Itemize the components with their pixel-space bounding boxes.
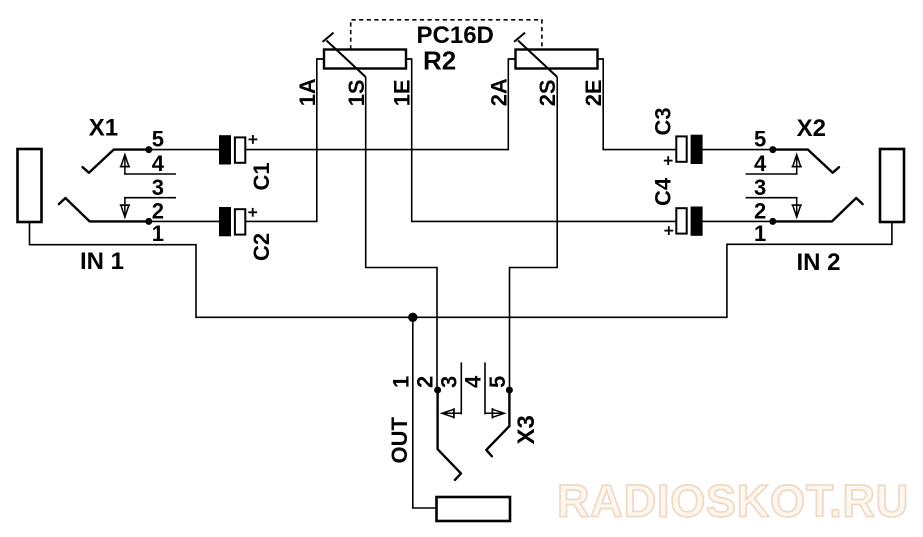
jack X2 contact pin5 (773, 150, 839, 173)
jack X3 pin4 stub (484, 362, 486, 414)
svg-text:2S: 2S (535, 79, 560, 106)
svg-text:4: 4 (152, 151, 165, 176)
node X1 pin5 dot (145, 146, 152, 153)
wire C1 to pot 2A (245, 59, 515, 150)
capacitor C4 negative plate (691, 207, 703, 236)
node X3 pin5 dot (506, 387, 513, 394)
jack X1 contact pin2 (59, 198, 149, 221)
wire ground to X3 pin1 (413, 317, 437, 508)
wire X1 pin2 to C2 (149, 220, 219, 222)
svg-text:2: 2 (152, 199, 164, 224)
jack X1 body (18, 149, 42, 222)
jack X3 (387, 362, 540, 521)
potentiometer R2 section 1 wiper (323, 33, 366, 77)
capacitor C2 positive plate (235, 209, 245, 234)
potentiometer R2 section 2 terminal stubs (508, 58, 603, 60)
wire dashed gang link (351, 20, 542, 50)
svg-text:X1: X1 (89, 115, 118, 142)
jack X1 contact pin5 (83, 150, 149, 173)
jack X3 pin3 stub (460, 362, 462, 414)
wire wiper 2S to X3 pin5 (510, 77, 558, 390)
wire X1 pin5 to C1 (149, 149, 219, 151)
wire ground bus X1 to X2 (30, 222, 892, 317)
potentiometer R2 section 2 body (516, 50, 598, 69)
jack X2 pin4 stub (746, 173, 798, 175)
node X1 pin2 dot (145, 218, 152, 225)
svg-text:5: 5 (754, 127, 766, 152)
jack X2 pin4 arrow (792, 155, 802, 174)
capacitor C4 polarity plus (664, 226, 673, 235)
potentiometer R2 section 2 wiper (514, 33, 557, 77)
wire pot 1E to C4 (406, 59, 676, 221)
jack X1 pin4 arrow (120, 155, 130, 174)
wire wiper 1S to X3 pin2 (366, 77, 437, 390)
svg-text:RADIOSKOT.RU: RADIOSKOT.RU (557, 476, 909, 527)
svg-text:5: 5 (485, 376, 510, 388)
capacitor C1 negative plate (219, 135, 231, 164)
jack X3 body (437, 497, 511, 521)
svg-text:C4: C4 (651, 177, 676, 206)
svg-text:X3: X3 (513, 415, 540, 444)
potentiometer R2 section 1 terminal stubs (317, 58, 412, 60)
svg-text:1E: 1E (390, 79, 415, 106)
jack X1 pin3 stub (124, 197, 176, 199)
jack X1 pin3 arrow (120, 198, 130, 217)
svg-text:C3: C3 (651, 107, 676, 135)
svg-text:1: 1 (754, 221, 766, 246)
wire C3 to X2 pin5 (703, 149, 773, 151)
capacitor C1 positive plate (235, 137, 245, 162)
capacitor C2 (219, 207, 274, 261)
jack X3 contact pin2 (438, 390, 461, 480)
capacitor C4 positive plate (676, 208, 686, 233)
wire pot 2E to C3 (598, 59, 677, 150)
capacitor C3 (651, 107, 703, 165)
svg-text:1: 1 (389, 376, 414, 388)
svg-text:3: 3 (754, 175, 766, 200)
jack X3 contact pin5 (486, 390, 509, 456)
svg-text:3: 3 (437, 376, 462, 388)
svg-text:1: 1 (152, 221, 164, 246)
node junction dot ground bus (408, 313, 417, 322)
node X2 pin5 dot (769, 146, 776, 153)
svg-text:5: 5 (152, 127, 164, 152)
jack X2 pin3 arrow (792, 198, 802, 217)
svg-text:1A: 1A (295, 78, 320, 106)
capacitor C3 positive plate (676, 136, 686, 161)
svg-text:4: 4 (754, 151, 767, 176)
jack X3 pin4 arrow (485, 408, 504, 418)
svg-text:C1: C1 (249, 162, 274, 190)
capacitor C1 polarity plus (249, 135, 258, 144)
svg-text:IN 2: IN 2 (797, 249, 841, 276)
wire C2 to pot 1A (245, 59, 324, 221)
svg-text:2: 2 (754, 199, 766, 224)
jack X2 (746, 115, 904, 276)
svg-text:X2: X2 (797, 115, 826, 142)
jack X2 body (880, 149, 904, 222)
svg-text:1S: 1S (344, 79, 369, 106)
wire C4 to X2 pin2 (703, 220, 773, 222)
jack X2 pin3 stub (746, 197, 798, 199)
capacitor C2 polarity plus (248, 208, 257, 217)
capacitor C4 (651, 177, 703, 236)
svg-text:2A: 2A (486, 78, 511, 106)
capacitor C1 (219, 135, 274, 191)
svg-text:3: 3 (152, 175, 164, 200)
node X2 pin2 dot (769, 218, 776, 225)
svg-text:C2: C2 (249, 233, 274, 261)
svg-text:OUT: OUT (387, 417, 412, 464)
svg-text:R2: R2 (423, 46, 456, 76)
svg-text:IN 1: IN 1 (80, 248, 124, 275)
jack X2 contact pin2 (773, 198, 863, 221)
capacitor C3 negative plate (691, 135, 703, 164)
jack X1 pin4 stub (124, 173, 176, 175)
svg-text:2E: 2E (581, 79, 606, 106)
svg-text:4: 4 (461, 375, 486, 388)
node X3 pin2 dot (434, 387, 441, 394)
jack X3 pin3 arrow (442, 408, 461, 418)
capacitor C2 negative plate (219, 207, 231, 236)
svg-text:2: 2 (413, 376, 438, 388)
jack X1 (18, 115, 177, 276)
capacitor C3 polarity plus (664, 156, 673, 165)
potentiometer R2 section 1 body (324, 50, 406, 69)
